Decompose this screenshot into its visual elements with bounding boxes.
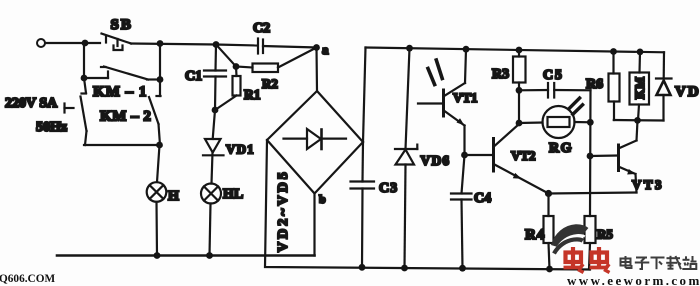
node VT1 emitter bbox=[461, 152, 468, 159]
wire common emitter line bbox=[549, 193, 637, 194]
transistor VT2 bbox=[465, 125, 549, 194]
svg-text:KM – 2: KM – 2 bbox=[100, 109, 151, 125]
resistor R2 bbox=[236, 48, 317, 92]
wire ac neutral rail bbox=[57, 254, 315, 257]
svg-text:www.eeworm.com: www.eeworm.com bbox=[567, 273, 700, 286]
lamp H bbox=[147, 145, 179, 256]
resistor R3 bbox=[492, 47, 526, 127]
svg-text:Q606.COM: Q606.COM bbox=[0, 273, 56, 285]
resistor R1 bbox=[215, 67, 261, 111]
phototransistor VT1 bbox=[418, 46, 478, 155]
svg-text:R3: R3 bbox=[492, 67, 509, 82]
svg-text:SB: SB bbox=[111, 17, 133, 33]
logo worm swoosh bbox=[554, 229, 585, 253]
bridge rectifier VD2~VD5 bbox=[267, 91, 363, 252]
wire diagonal to R nodes bbox=[216, 45, 236, 67]
svg-text:R1: R1 bbox=[244, 87, 261, 102]
svg-text:KM: KM bbox=[632, 77, 647, 99]
contact KM-2 bbox=[100, 80, 161, 146]
svg-text:C4: C4 bbox=[474, 191, 491, 206]
photoresistor RG bbox=[519, 98, 591, 156]
wire dc plus riser bbox=[363, 48, 366, 143]
svg-text:VT3: VT3 bbox=[632, 177, 664, 192]
svg-text:H: H bbox=[168, 189, 179, 204]
node live junction bbox=[82, 40, 89, 47]
capacitor C2 bbox=[216, 21, 317, 54]
svg-text:R5: R5 bbox=[597, 227, 613, 242]
svg-text:VD6: VD6 bbox=[421, 153, 451, 168]
wire dc plus rail bbox=[366, 48, 665, 53]
logo chongchong red characters bbox=[564, 247, 610, 273]
input terminal bbox=[37, 39, 45, 47]
svg-text:50Hz: 50Hz bbox=[36, 120, 67, 135]
node top right bbox=[157, 40, 164, 47]
svg-text:R2: R2 bbox=[262, 76, 278, 91]
capacitor C4 bbox=[451, 155, 491, 272]
svg-text:C1: C1 bbox=[185, 69, 202, 84]
svg-text:HL: HL bbox=[223, 187, 243, 202]
capacitor C1 bbox=[185, 45, 226, 111]
wire left vertical bbox=[83, 43, 85, 78]
svg-text:VD1: VD1 bbox=[226, 142, 255, 157]
capacitor C3 bbox=[351, 142, 399, 271]
diode VD1 bbox=[203, 110, 255, 184]
resistor R5 bbox=[585, 216, 614, 270]
svg-text:RG: RG bbox=[549, 141, 573, 156]
node a bbox=[313, 44, 320, 51]
transistor VT3 bbox=[590, 121, 664, 193]
resistor R6 bbox=[586, 48, 620, 120]
wire top right of SB bbox=[131, 44, 216, 45]
wire dc minus rail bbox=[265, 140, 590, 270]
switch SA bbox=[5, 78, 87, 145]
wire top live lead bbox=[46, 42, 101, 44]
svg-text:C3: C3 bbox=[379, 181, 398, 196]
relay coil KM bbox=[630, 49, 650, 121]
node C1 top bbox=[213, 41, 220, 48]
svg-text:VD2~VD5: VD2~VD5 bbox=[276, 169, 291, 252]
node VT2 emitter bbox=[545, 190, 552, 197]
switch SB bbox=[102, 17, 133, 50]
capacitor C5 bbox=[519, 68, 591, 98]
logo site name glyphs bbox=[621, 256, 697, 269]
svg-text:VT1: VT1 bbox=[453, 90, 478, 105]
lamp HL bbox=[201, 184, 243, 256]
svg-text:C5: C5 bbox=[543, 68, 564, 83]
wire b to ac rail bbox=[313, 194, 315, 256]
wire relay node bbox=[614, 119, 664, 122]
wire bottom of switches bbox=[84, 144, 160, 146]
svg-text:KM – 1: KM – 1 bbox=[93, 84, 147, 100]
diode VD7 bbox=[656, 52, 700, 120]
resistor R4 bbox=[525, 194, 554, 273]
svg-text:VD: VD bbox=[675, 84, 700, 100]
wire bridge top feed bbox=[315, 48, 318, 92]
svg-text:a: a bbox=[322, 42, 329, 57]
svg-text:R4: R4 bbox=[525, 227, 545, 243]
svg-text:220V SA: 220V SA bbox=[5, 96, 58, 111]
svg-text:VT2: VT2 bbox=[511, 148, 536, 163]
contact KM-1 bbox=[81, 67, 164, 101]
svg-text:b: b bbox=[319, 192, 326, 206]
zener VD6 bbox=[395, 45, 450, 272]
svg-text:C2: C2 bbox=[253, 21, 270, 36]
node C1 bottom bbox=[212, 107, 219, 114]
wire right vertical bbox=[159, 44, 161, 81]
svg-text:R6: R6 bbox=[586, 77, 603, 92]
wire RG right column bbox=[589, 90, 592, 216]
